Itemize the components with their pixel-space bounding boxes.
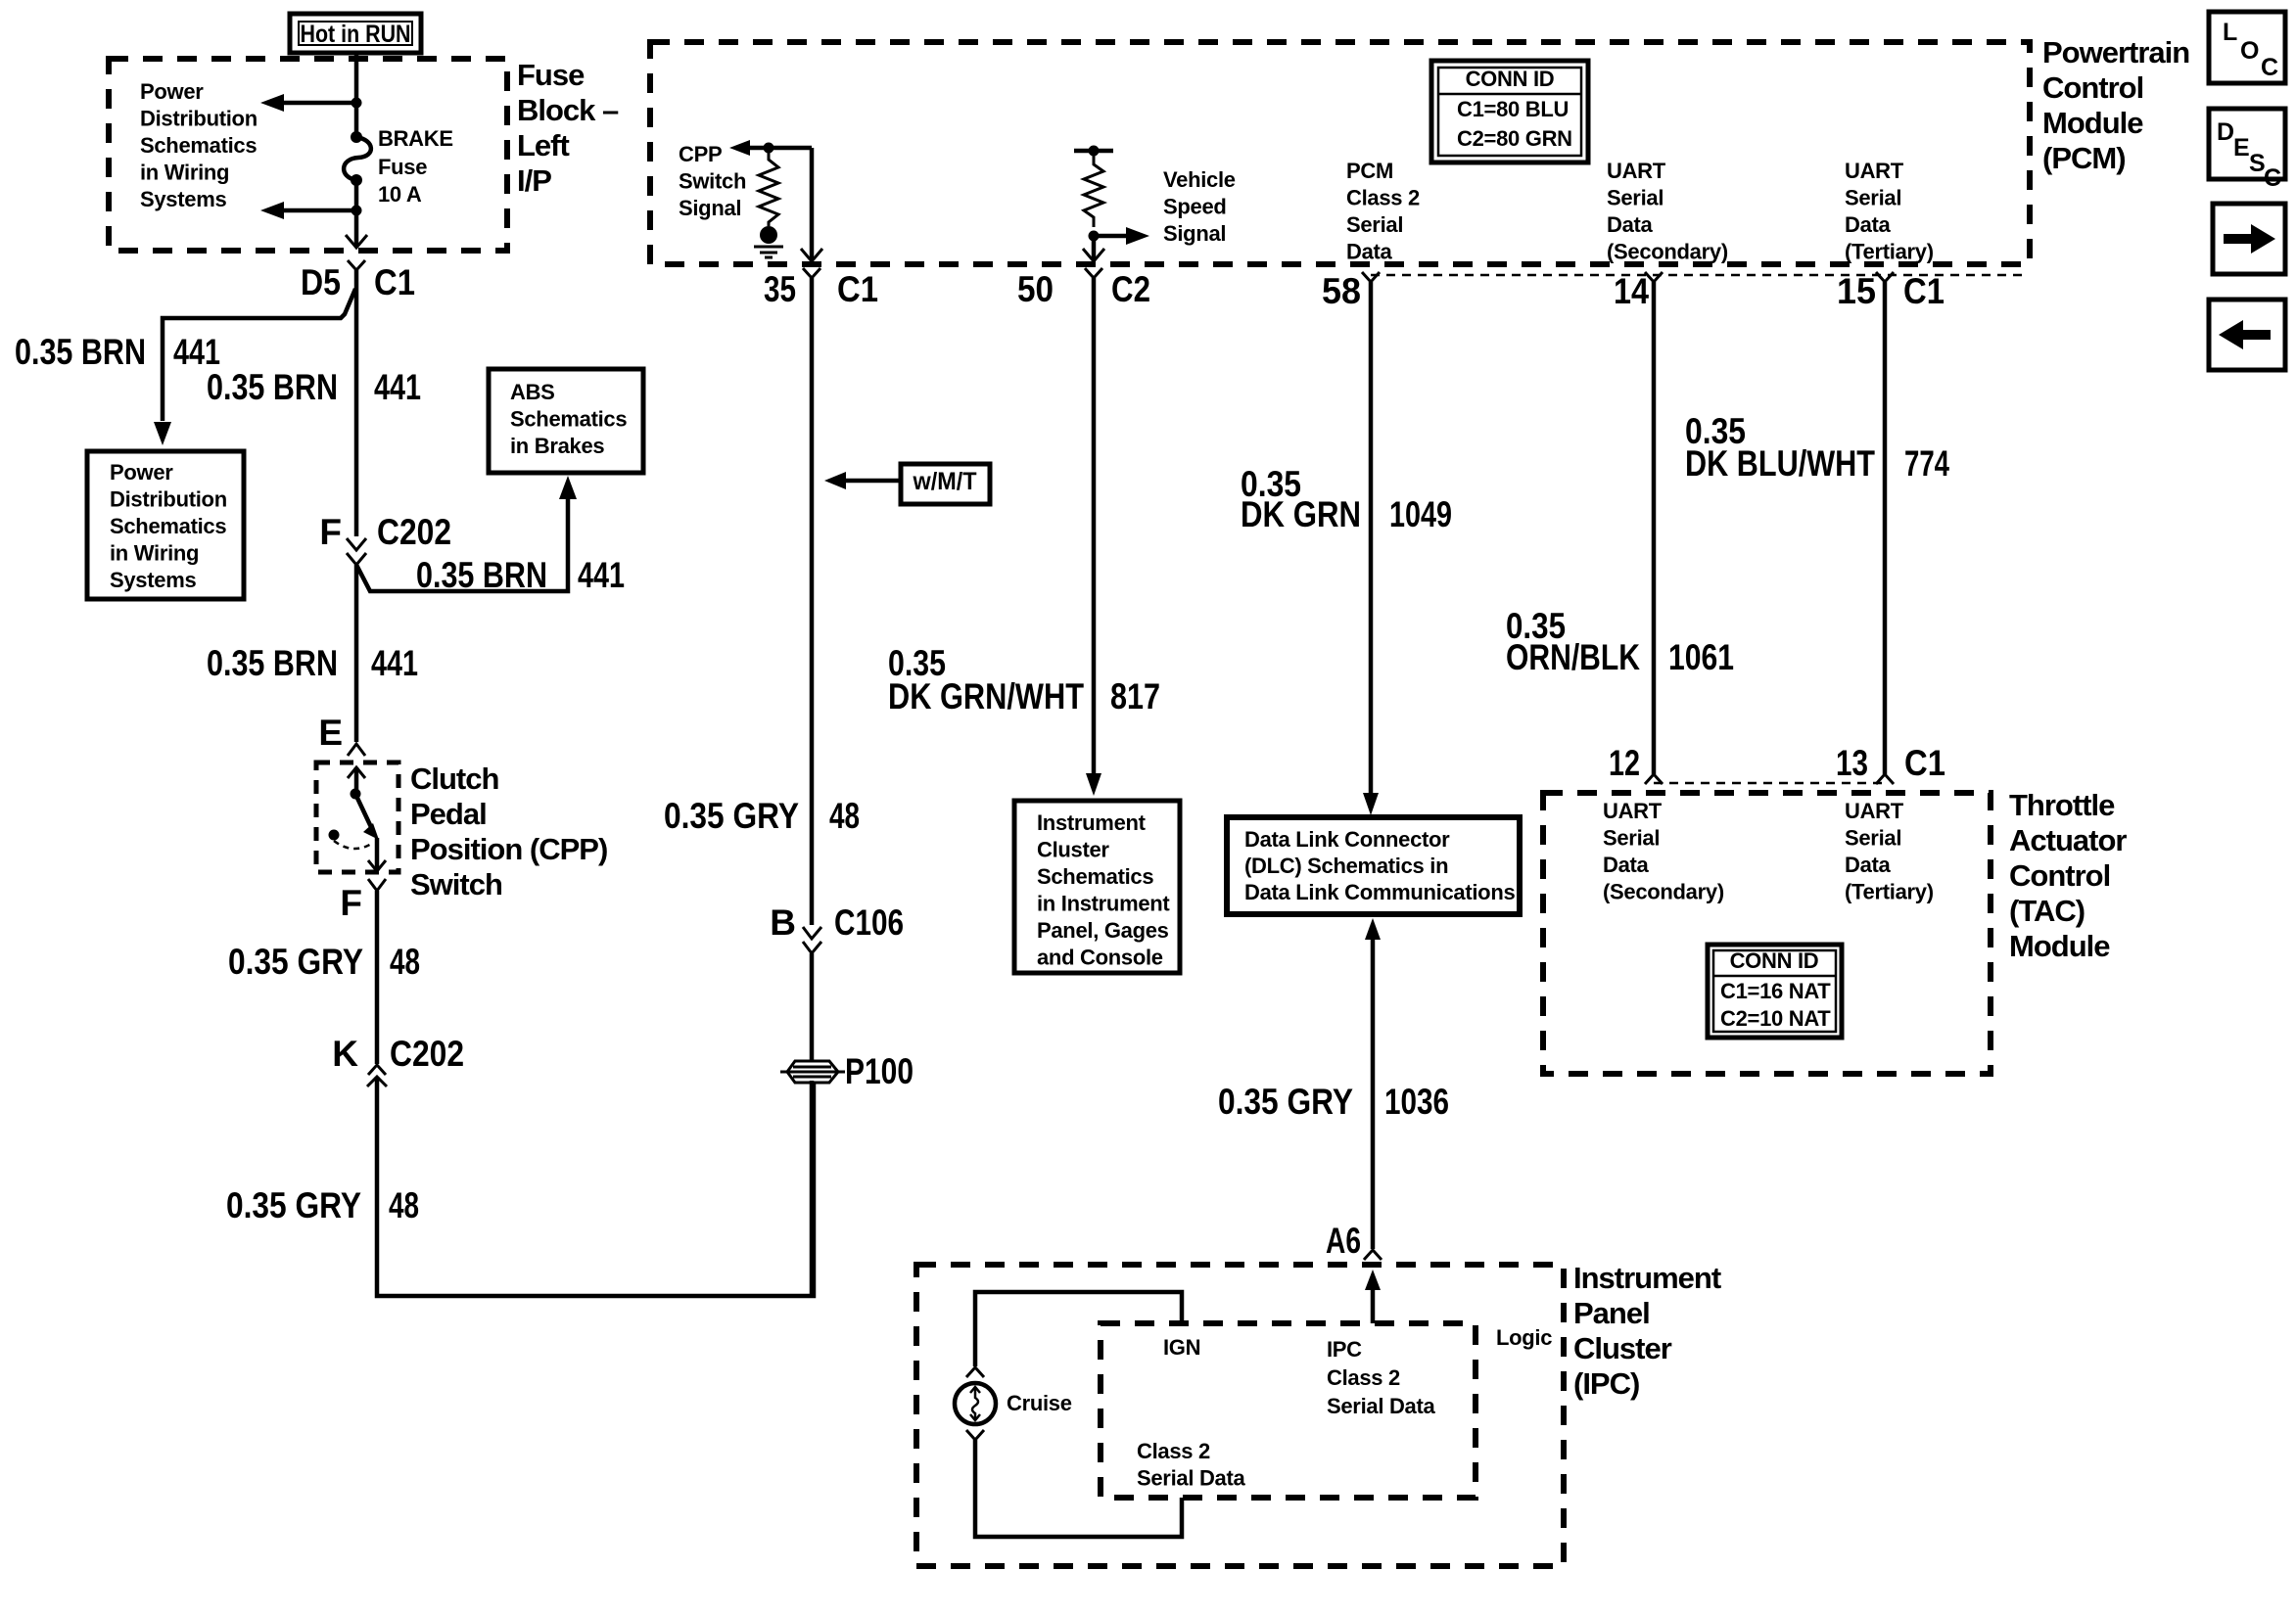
svg-text:Vehicle: Vehicle [1163, 167, 1236, 192]
connector pin F (CPP switch output) [340, 879, 386, 923]
power distribution schematics box [87, 451, 244, 599]
svg-text:C202: C202 [377, 512, 451, 552]
label 0.35 DK GRN 1049 [1241, 464, 1452, 534]
svg-text:BRAKE: BRAKE [378, 126, 453, 151]
svg-text:Instrument: Instrument [1037, 810, 1147, 835]
connector C1 pin D5 (fuse block) [301, 260, 415, 302]
svg-text:F: F [340, 883, 362, 923]
svg-text:Pedal: Pedal [410, 797, 487, 831]
wire 1036: IPC pin A6 up to DLC [1365, 918, 1381, 1249]
svg-text:0.35 GRY: 0.35 GRY [228, 942, 363, 982]
svg-text:441: 441 [173, 332, 220, 372]
label 0.35 ORN/BLK 1061 [1506, 606, 1734, 677]
label 0.35 BRN 441 (ABS spur) [416, 555, 625, 595]
cruise indicator lamp [955, 1367, 1072, 1440]
cruise indicator wiring (bottom loop) [975, 1440, 1182, 1537]
svg-text:441: 441 [371, 643, 418, 683]
svg-text:B: B [770, 902, 796, 943]
svg-text:Schematics: Schematics [140, 133, 257, 158]
fuse block module label [517, 58, 619, 198]
svg-text:K: K [332, 1034, 358, 1074]
svg-text:1036: 1036 [1384, 1082, 1449, 1122]
wire branch to power distribution (upper) [260, 94, 362, 112]
svg-text:Cluster: Cluster [1573, 1331, 1672, 1365]
svg-text:UART: UART [1845, 799, 1904, 823]
svg-text:Serial Data: Serial Data [1137, 1466, 1245, 1491]
svg-text:Schematics: Schematics [510, 407, 627, 432]
grommet P100 [780, 1051, 914, 1091]
svg-text:and Console: and Console [1037, 946, 1163, 970]
svg-text:Serial: Serial [1603, 826, 1660, 851]
svg-text:UART: UART [1845, 159, 1904, 183]
wire 48 from C106 to P100 [810, 953, 815, 1062]
wire 48 lower with up arrow and route to splice pack [367, 1077, 814, 1296]
svg-text:Throttle: Throttle [2009, 788, 2115, 822]
svg-text:(IPC): (IPC) [1573, 1366, 1639, 1401]
CPP switch signal label [679, 142, 746, 220]
svg-text:E: E [318, 713, 343, 753]
svg-text:Module: Module [2009, 929, 2110, 963]
svg-text:Class 2: Class 2 [1137, 1439, 1210, 1463]
svg-text:L: L [2223, 19, 2237, 46]
svg-text:13: 13 [1836, 743, 1868, 783]
wire branch to power distribution (lower) [260, 202, 362, 219]
wire 441 branch to power distribution box [154, 289, 355, 445]
svg-text:15: 15 [1837, 271, 1876, 311]
label 0.35 GRY 1036 [1218, 1082, 1449, 1122]
svg-text:12: 12 [1609, 743, 1640, 783]
CPP switch signal pull-up: arrow, resistor, ground [729, 140, 812, 257]
loc icon [2209, 12, 2285, 83]
wire from Hot in RUN to fuse [354, 53, 359, 134]
UART serial data (tertiary) pin label (TAC) [1845, 799, 1934, 904]
UART serial data (secondary) pin label (PCM) [1607, 159, 1728, 264]
throttle actuator control (TAC) module box (dashed) [1543, 793, 1991, 1074]
svg-text:C: C [2261, 54, 2278, 81]
svg-text:Serial: Serial [1607, 186, 1663, 210]
svg-text:Systems: Systems [140, 187, 226, 211]
svg-text:C2=80 GRN: C2=80 GRN [1457, 126, 1572, 151]
svg-text:C: C [2264, 164, 2281, 192]
ABS schematics box [489, 369, 643, 473]
label 0.35 BRN 441 (lower) [207, 643, 418, 683]
connector C1 pin 15 [1837, 271, 1945, 311]
svg-text:Cruise: Cruise [1007, 1391, 1072, 1415]
svg-text:I/P: I/P [517, 163, 551, 198]
svg-text:Serial: Serial [1845, 826, 1901, 851]
svg-text:(DLC) Schematics in: (DLC) Schematics in [1244, 854, 1448, 878]
wire 1049: pin 58 to DLC [1363, 282, 1379, 815]
svg-text:Power: Power [110, 460, 173, 485]
svg-text:C1: C1 [837, 269, 878, 309]
svg-text:Actuator: Actuator [2009, 823, 2127, 857]
clutch pedal position switch [329, 767, 387, 871]
data link connector (DLC) schematics box [1227, 817, 1520, 914]
svg-text:Switch: Switch [410, 867, 502, 901]
power label "Hot in RUN" [290, 14, 421, 53]
label 0.35 BRN 441 (main upper) [207, 367, 421, 407]
wire 441 main segment [354, 270, 359, 536]
svg-text:0.35 BRN: 0.35 BRN [207, 643, 338, 683]
svg-text:in Wiring: in Wiring [140, 161, 229, 185]
svg-text:48: 48 [389, 1185, 419, 1225]
w/M/T tag box and arrow [824, 464, 990, 504]
svg-text:Control: Control [2009, 858, 2110, 893]
svg-text:Systems: Systems [110, 568, 196, 592]
svg-text:DK GRN: DK GRN [1241, 494, 1361, 534]
vehicle speed signal source: bar, resistor, arrow [1074, 146, 1149, 246]
svg-text:48: 48 [390, 942, 420, 982]
svg-text:Distribution: Distribution [140, 107, 258, 131]
svg-text:Schematics: Schematics [110, 514, 226, 538]
svg-text:A6: A6 [1326, 1221, 1361, 1261]
UART serial data (secondary) pin label (TAC) [1603, 799, 1724, 904]
svg-text:Module: Module [2042, 106, 2143, 140]
cruise indicator wiring (top loop) [975, 1292, 1182, 1366]
label 0.35 GRY 48 (upper) [228, 942, 420, 982]
wire A6 into logic box with up arrow [1365, 1270, 1381, 1323]
svg-text:Speed: Speed [1163, 195, 1227, 219]
svg-text:35: 35 [764, 269, 796, 309]
svg-text:Logic: Logic [1496, 1325, 1552, 1350]
svg-text:(Secondary): (Secondary) [1603, 880, 1724, 904]
svg-text:14: 14 [1614, 271, 1649, 311]
svg-text:Clutch: Clutch [410, 762, 499, 796]
svg-text:UART: UART [1603, 799, 1663, 823]
svg-text:1061: 1061 [1668, 637, 1734, 677]
svg-text:CONN ID: CONN ID [1466, 67, 1555, 91]
svg-text:C1=16 NAT: C1=16 NAT [1720, 979, 1831, 1003]
wire 48 below P100 handled in left column route [810, 1081, 815, 1296]
svg-text:0.35 GRY: 0.35 GRY [1218, 1082, 1353, 1122]
TAC C1 connector face (thin dashed) [1654, 782, 1885, 785]
connector C106 pin B [770, 902, 904, 953]
svg-text:C1=80 BLU: C1=80 BLU [1457, 97, 1569, 121]
IPC module label [1573, 1261, 1721, 1401]
CPP switch box (dashed) [316, 762, 398, 872]
svg-text:(Secondary): (Secondary) [1607, 240, 1728, 264]
svg-text:Fuse: Fuse [517, 58, 585, 92]
svg-text:817: 817 [1110, 676, 1160, 716]
svg-text:F: F [319, 512, 342, 552]
svg-text:Cluster: Cluster [1037, 838, 1109, 862]
svg-text:Serial Data: Serial Data [1327, 1394, 1435, 1418]
svg-text:774: 774 [1904, 443, 1949, 484]
svg-text:Power: Power [140, 79, 204, 104]
svg-text:DK GRN/WHT: DK GRN/WHT [888, 676, 1084, 716]
powertrain control module (PCM) box (dashed) [650, 42, 2030, 264]
class 2 serial data label [1137, 1439, 1245, 1491]
svg-text:C2: C2 [1111, 269, 1150, 309]
svg-text:IGN: IGN [1163, 1335, 1200, 1360]
svg-text:UART: UART [1607, 159, 1666, 183]
svg-text:0.35 BRN: 0.35 BRN [207, 367, 338, 407]
svg-text:Data: Data [1346, 240, 1393, 264]
wire 1061: pin 14 to TAC pin 12 [1652, 282, 1657, 774]
svg-text:IPC: IPC [1327, 1337, 1362, 1362]
label 0.35 DK GRN/WHT 817 [888, 643, 1160, 716]
UART serial data (tertiary) pin label (PCM) [1845, 159, 1934, 264]
note: power distribution schematics (in fuse block) [140, 79, 258, 211]
svg-text:in Brakes: in Brakes [510, 434, 604, 458]
connector C1 pin 14 [1614, 271, 1663, 311]
connector C1 pin 35 [764, 268, 878, 309]
svg-text:Panel: Panel [1573, 1296, 1650, 1330]
CONN ID table (PCM) [1431, 61, 1588, 162]
connector C1 pin 13 (TAC) [1836, 743, 1945, 784]
PCM class 2 serial data pin label [1346, 159, 1420, 264]
fuse block - left I/P module box (dashed) [109, 59, 507, 251]
label 0.35 DK BLU/WHT 774 [1685, 411, 1949, 484]
svg-text:Hot in RUN: Hot in RUN [301, 21, 411, 48]
connector C1 pin 58 [1322, 271, 1380, 311]
svg-text:Data Link Connector: Data Link Connector [1244, 827, 1450, 852]
svg-text:0.35 BRN: 0.35 BRN [15, 332, 146, 372]
svg-text:D: D [2217, 118, 2234, 146]
vehicle speed signal label [1163, 167, 1236, 246]
svg-text:1049: 1049 [1389, 494, 1452, 534]
svg-text:CONN ID: CONN ID [1730, 948, 1819, 973]
CONN ID table (TAC) [1708, 945, 1842, 1038]
wire 48: pin 35 down to C106 [810, 278, 815, 925]
svg-text:Data: Data [1603, 853, 1650, 877]
svg-text:Distribution: Distribution [110, 487, 227, 512]
logic box (dashed) [1101, 1323, 1476, 1498]
connector pin E [318, 713, 365, 756]
svg-text:ORN/BLK: ORN/BLK [1506, 637, 1640, 677]
svg-text:Data Link Communications: Data Link Communications [1244, 880, 1515, 904]
svg-text:C202: C202 [390, 1034, 464, 1074]
svg-text:10 A: 10 A [378, 182, 422, 207]
desc icon [2209, 109, 2285, 192]
label 0.35 GRY 48 (lower) [226, 1185, 419, 1225]
svg-text:PCM: PCM [1346, 159, 1393, 183]
svg-text:D5: D5 [301, 262, 341, 302]
wire 48 from CPP switch [375, 891, 380, 1064]
svg-text:Data: Data [1845, 212, 1892, 237]
svg-text:P100: P100 [845, 1051, 914, 1091]
wire 441 to CPP switch [354, 565, 359, 742]
svg-text:in Wiring: in Wiring [110, 541, 199, 566]
wire 441 spur to ABS [356, 476, 577, 591]
svg-text:Data: Data [1607, 212, 1654, 237]
PCM C1 connector face (thin dashed) [1371, 274, 2027, 277]
svg-text:Switch: Switch [679, 169, 746, 194]
wire fuse output [354, 180, 359, 247]
svg-text:0.35 BRN: 0.35 BRN [416, 555, 547, 595]
TAC module label [2009, 788, 2127, 963]
svg-text:Class 2: Class 2 [1346, 186, 1420, 210]
svg-text:C2=10 NAT: C2=10 NAT [1720, 1006, 1831, 1031]
PCM module label [2042, 35, 2189, 175]
svg-text:(PCM): (PCM) [2042, 141, 2126, 175]
arrow out of fuse block [346, 235, 367, 248]
svg-text:0.35 GRY: 0.35 GRY [664, 796, 799, 836]
svg-text:441: 441 [374, 367, 421, 407]
svg-text:Data: Data [1845, 853, 1892, 877]
svg-text:Class 2: Class 2 [1327, 1365, 1400, 1390]
wire to PCM pin 50 [1083, 236, 1104, 261]
next page arrow icon [2213, 204, 2285, 274]
svg-text:Powertrain: Powertrain [2042, 35, 2189, 69]
svg-text:(Tertiary): (Tertiary) [1845, 880, 1934, 904]
wire 774: pin 15 to TAC pin 13 [1883, 282, 1888, 774]
svg-text:Serial: Serial [1845, 186, 1901, 210]
svg-text:50: 50 [1017, 269, 1054, 309]
previous page arrow icon [2209, 300, 2285, 370]
svg-text:ABS: ABS [510, 380, 555, 404]
wire 817: pin 50 down to instrument cluster [1086, 278, 1101, 796]
svg-text:w/M/T: w/M/T [913, 468, 977, 495]
svg-text:Fuse: Fuse [378, 155, 427, 179]
svg-text:0.35 GRY: 0.35 GRY [226, 1185, 361, 1225]
connector C1 pin 12 (TAC) [1609, 743, 1663, 784]
svg-text:Signal: Signal [679, 196, 741, 220]
connector C2 pin 50 [1017, 268, 1150, 309]
label 0.35 GRY 48 (pin 35 wire) [664, 796, 860, 836]
svg-text:Control: Control [2042, 70, 2143, 105]
svg-text:C1: C1 [1903, 271, 1945, 311]
svg-text:O: O [2240, 37, 2259, 65]
svg-text:Schematics: Schematics [1037, 864, 1153, 889]
svg-text:C1: C1 [374, 262, 415, 302]
svg-text:Panel, Gages: Panel, Gages [1037, 918, 1169, 943]
label 0.35 BRN 441 (branch) [15, 332, 220, 372]
svg-text:C1: C1 [1904, 743, 1945, 783]
svg-text:DK BLU/WHT: DK BLU/WHT [1685, 443, 1875, 484]
wire to PCM pin 35 [801, 148, 822, 261]
instrument cluster schematics box [1014, 801, 1180, 973]
svg-text:(Tertiary): (Tertiary) [1845, 240, 1934, 264]
svg-text:Signal: Signal [1163, 221, 1226, 246]
svg-text:(TAC): (TAC) [2009, 894, 2085, 928]
connector pin A6 (IPC) [1326, 1221, 1382, 1261]
connector C202 pin K [332, 1034, 464, 1075]
connector C202 pin F [319, 512, 451, 565]
svg-text:Instrument: Instrument [1573, 1261, 1721, 1295]
instrument panel cluster (IPC) box (dashed) [916, 1265, 1564, 1566]
svg-text:in Instrument: in Instrument [1037, 892, 1170, 916]
svg-text:58: 58 [1322, 271, 1361, 311]
svg-text:C106: C106 [834, 902, 904, 943]
svg-text:48: 48 [829, 796, 860, 836]
svg-text:441: 441 [578, 555, 625, 595]
fuse BRAKE 10A [344, 126, 453, 207]
clutch pedal position (CPP) switch label [410, 762, 607, 901]
IPC class 2 serial data label [1327, 1337, 1435, 1418]
svg-text:Block –: Block – [517, 93, 619, 127]
svg-text:E: E [2233, 134, 2250, 162]
svg-text:Left: Left [517, 128, 570, 162]
svg-text:Position (CPP): Position (CPP) [410, 832, 607, 866]
svg-text:CPP: CPP [679, 142, 722, 166]
svg-text:Serial: Serial [1346, 212, 1403, 237]
